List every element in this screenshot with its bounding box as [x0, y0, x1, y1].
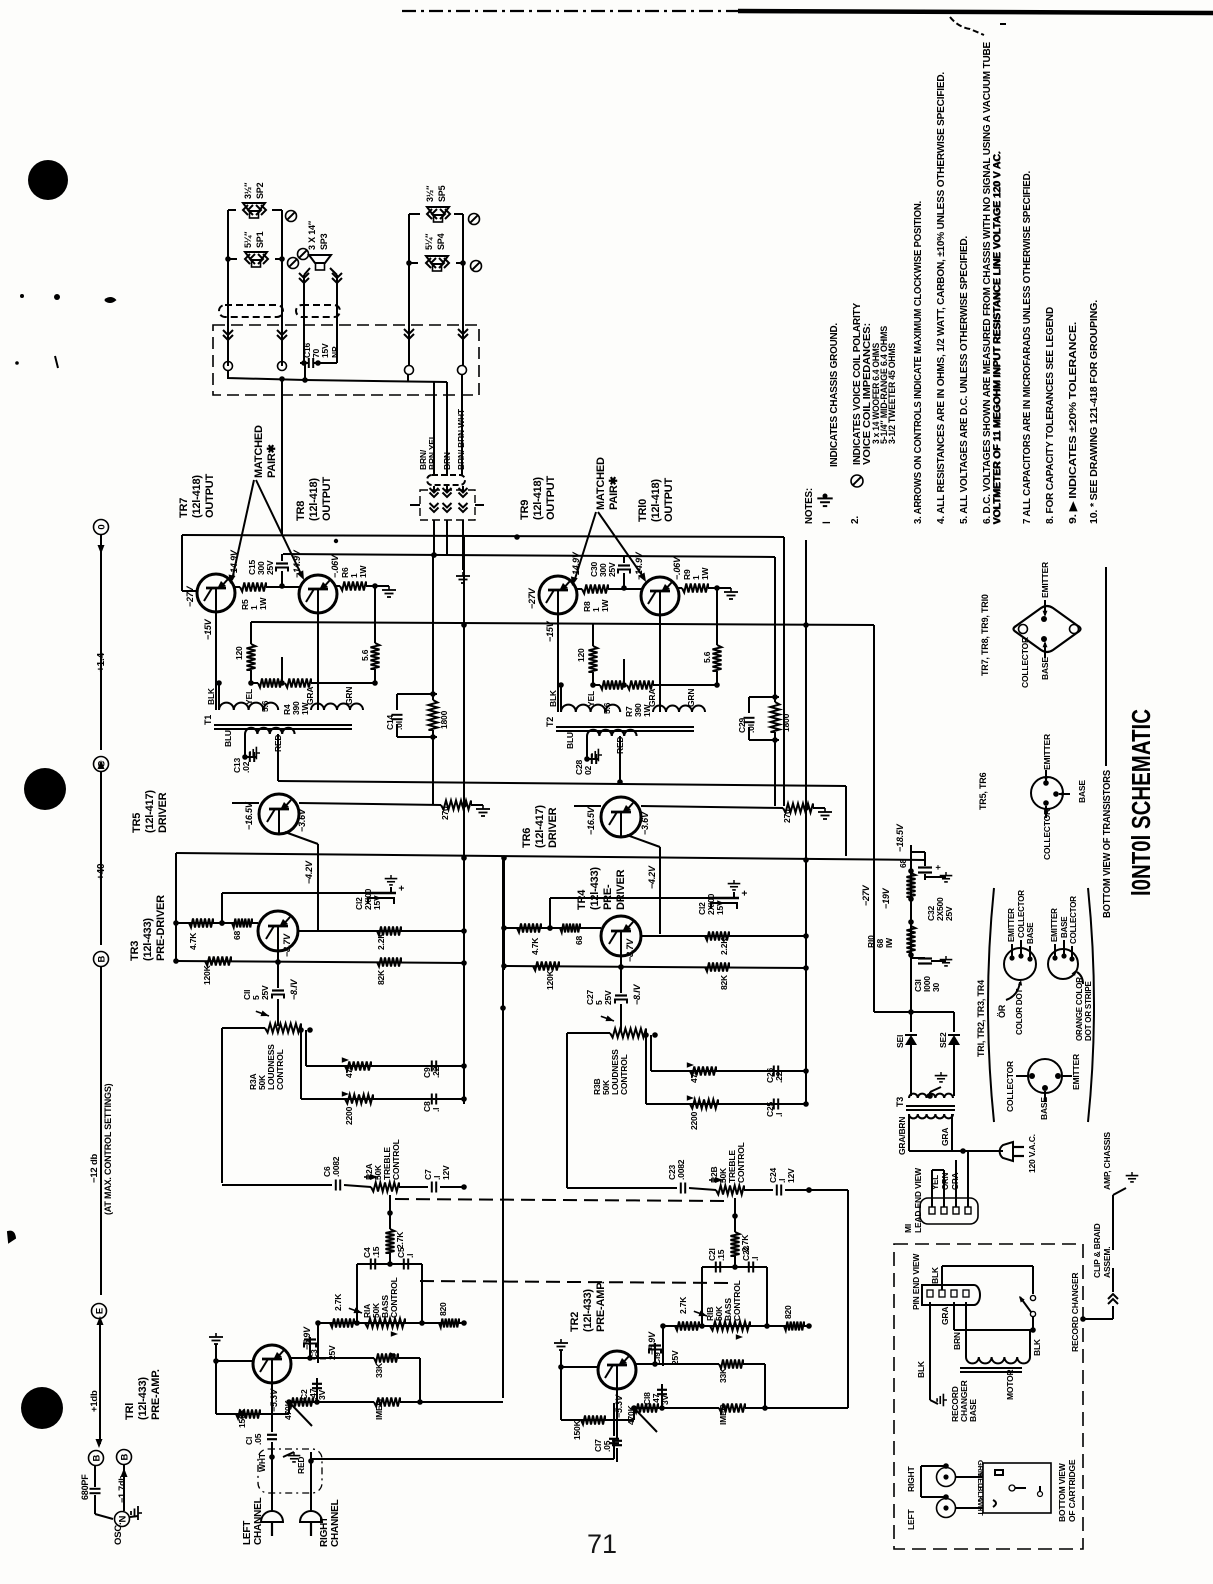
svg-text:GRA: GRA	[940, 1307, 950, 1325]
svg-text:Cl7.05: Cl7.05	[593, 1439, 612, 1452]
svg-text:YEL: YEL	[931, 1175, 940, 1190]
svg-text:GRA: GRA	[951, 1172, 960, 1190]
svg-text:EMITTER: EMITTER	[1071, 1054, 1081, 1090]
svg-text:COLLECTOR: COLLECTOR	[1069, 896, 1078, 944]
svg-text:T3: T3	[895, 1097, 905, 1107]
svg-text:−.06V: −.06V	[330, 554, 340, 578]
svg-text:68: 68	[574, 935, 584, 945]
svg-text:150K: 150K	[572, 1419, 582, 1440]
svg-text:9. ▶ INDICATES ±20% TOLERANCE: 9. ▶ INDICATES ±20% TOLERANCE.	[1067, 322, 1079, 524]
svg-text:120K: 120K	[545, 969, 555, 990]
svg-text:VOLTMETER OF 11 MEGOHM INPUT R: VOLTMETER OF 11 MEGOHM INPUT RESISTANCE …	[992, 151, 1004, 524]
svg-text:10. * SEE DRAWING 121-418 FOR: 10. * SEE DRAWING 121-418 FOR GROUPING.	[1088, 300, 1100, 524]
svg-text:BRN: BRN	[442, 452, 452, 470]
svg-text:470K: 470K	[283, 1399, 293, 1420]
svg-text:BASE: BASE	[1040, 657, 1050, 680]
svg-text:C2l.15: C2l.15	[707, 1248, 726, 1261]
svg-text:2.2K: 2.2K	[376, 932, 386, 950]
svg-text:3. ARROWS ON CONTROLS INDICAT: 3. ARROWS ON CONTROLS INDICATE MAXIMUM C…	[912, 201, 924, 524]
svg-text:1800: 1800	[439, 710, 449, 729]
svg-text:GRA: GRA	[940, 1128, 950, 1146]
svg-text:2.7K: 2.7K	[333, 1293, 343, 1311]
svg-text:120 V.A.C.: 120 V.A.C.	[1027, 1134, 1037, 1173]
svg-text:C4.15: C4.15	[362, 1246, 381, 1258]
svg-text:(AT MAX. CONTROL SETTINGS): (AT MAX. CONTROL SETTINGS)	[103, 1083, 113, 1215]
svg-text:82K: 82K	[719, 974, 729, 990]
svg-text:4.7K: 4.7K	[188, 932, 198, 950]
svg-text:2200: 2200	[689, 1111, 699, 1130]
svg-text:YEL: YEL	[244, 689, 254, 705]
svg-text:−4.2V: −4.2V	[304, 860, 314, 884]
svg-text:2.7K: 2.7K	[678, 1296, 688, 1314]
svg-text:SEl: SEl	[895, 1035, 905, 1048]
svg-text:GRN: GRN	[344, 687, 354, 705]
svg-text:+: +	[933, 865, 943, 870]
svg-text:270: 270	[440, 806, 450, 820]
svg-text:−5.3V: −5.3V	[614, 1394, 624, 1418]
svg-text:TR5, TR6: TR5, TR6	[978, 772, 988, 810]
svg-text:120: 120	[576, 648, 586, 662]
svg-text:BLU: BLU	[565, 732, 575, 749]
svg-text:B: B	[119, 1453, 130, 1460]
svg-text:lMEG: lMEG	[374, 1398, 384, 1420]
svg-text:71: 71	[587, 1529, 617, 1559]
svg-text:82K: 82K	[376, 969, 386, 985]
svg-text:SP1: SP1	[255, 231, 265, 248]
svg-text:−8.lV: −8.lV	[289, 979, 299, 1000]
svg-text:MOTOR: MOTOR	[1005, 1369, 1015, 1400]
svg-text:EMITTER: EMITTER	[1042, 734, 1052, 770]
svg-text:3 X 14″: 3 X 14″	[307, 220, 317, 250]
svg-text:RECORD CHANGER: RECORD CHANGER	[1070, 1273, 1080, 1352]
svg-text:l: l	[822, 521, 833, 524]
svg-text:−16.5V: −16.5V	[586, 806, 596, 835]
svg-text:NP: NP	[330, 346, 340, 358]
svg-text:BLK: BLK	[206, 687, 216, 705]
svg-text:RED: RED	[296, 1457, 306, 1474]
svg-text:PIN END VIEW: PIN END VIEW	[911, 1253, 921, 1310]
svg-text:BASE: BASE	[1039, 1097, 1049, 1120]
svg-text:WHT: WHT	[257, 1452, 267, 1472]
svg-text:SE2: SE2	[938, 1032, 948, 1048]
svg-text:TRl, TR2, TR3, TR4: TRl, TR2, TR3, TR4	[976, 980, 986, 1057]
svg-text:5.6: 5.6	[602, 702, 612, 714]
svg-text:−15V: −15V	[203, 618, 213, 640]
svg-text:2.: 2.	[850, 516, 861, 524]
svg-text:OSC.: OSC.	[113, 1523, 124, 1545]
svg-text:4. ALL RESISTANCES ARE IN OHM: 4. ALL RESISTANCES ARE IN OHMS, 1/2 WATT…	[935, 72, 947, 524]
svg-text:BASE: BASE	[1026, 922, 1035, 944]
svg-text:120: 120	[234, 646, 244, 660]
svg-text:EMITTER: EMITTER	[1007, 908, 1016, 942]
svg-text:BOTTOM VIEW OF TRANSISTORS: BOTTOM VIEW OF TRANSISTORS	[1102, 770, 1113, 918]
svg-text:RED: RED	[273, 735, 283, 752]
svg-text:−.06V: −.06V	[672, 556, 682, 580]
svg-text:−14.9V: −14.9V	[571, 551, 581, 580]
svg-text:3-1/2 TWEETER 45 OHMS: 3-1/2 TWEETER 45 OHMS	[887, 343, 898, 444]
svg-text:+: +	[740, 890, 751, 896]
svg-text:C9.22: C9.22	[422, 1066, 441, 1078]
svg-text:2200: 2200	[344, 1106, 354, 1125]
svg-text:COLLECTOR: COLLECTOR	[1005, 1061, 1015, 1112]
svg-text:5.6: 5.6	[360, 649, 370, 661]
svg-text:BLK: BLK	[916, 1360, 926, 1378]
svg-text:5.6: 5.6	[260, 700, 270, 712]
svg-text:−5.9V: −5.9V	[647, 1331, 657, 1355]
svg-text:−8.lV: −8.lV	[632, 984, 642, 1005]
svg-text:SP2: SP2	[255, 182, 265, 199]
svg-text:B: B	[96, 955, 107, 962]
svg-text:68: 68	[898, 858, 908, 868]
svg-text:COLOR DOT: COLOR DOT	[1015, 988, 1024, 1035]
svg-text:−18.5V: −18.5V	[895, 823, 905, 852]
svg-text:SP5: SP5	[437, 185, 447, 202]
svg-text:−14.9V: −14.9V	[634, 551, 644, 580]
svg-text:B: B	[91, 1454, 102, 1461]
svg-text:BOTTOM VIEWOF CARTRIDGE: BOTTOM VIEWOF CARTRIDGE	[1057, 1459, 1077, 1522]
svg-text:2.7K: 2.7K	[395, 1231, 405, 1249]
svg-text:3½″: 3½″	[243, 182, 253, 199]
svg-text:ORANGE COLORDOT OR STRIPE: ORANGE COLORDOT OR STRIPE	[1075, 977, 1093, 1041]
svg-text:33K: 33K	[718, 1367, 728, 1383]
svg-text:BLK: BLK	[930, 1266, 940, 1284]
svg-text:−16.5V: −16.5V	[244, 801, 254, 830]
svg-text:BLU: BLU	[223, 730, 233, 747]
svg-text:−12 db: −12 db	[89, 1153, 100, 1183]
svg-text:BRN: BRN	[952, 1332, 962, 1350]
svg-text:WHT: WHT	[976, 1499, 985, 1516]
svg-text:BLK: BLK	[1032, 1338, 1042, 1356]
svg-text:GRA: GRA	[647, 689, 657, 707]
svg-text:NOTES:: NOTES:	[803, 488, 815, 524]
svg-text:470K: 470K	[626, 1404, 636, 1425]
svg-text:68: 68	[232, 930, 242, 940]
svg-text:RIGHT: RIGHT	[906, 1466, 916, 1492]
svg-text:−3.6V: −3.6V	[640, 811, 650, 835]
svg-text:470: 470	[689, 1069, 699, 1083]
svg-text:5.6: 5.6	[702, 651, 712, 663]
svg-text:−27V: −27V	[527, 587, 537, 609]
svg-text:5¼″: 5¼″	[424, 233, 434, 250]
svg-text:−8.7V: −8.7V	[625, 938, 635, 962]
svg-text:270: 270	[782, 809, 792, 823]
svg-text:EMITTER: EMITTER	[1050, 908, 1059, 942]
svg-text:ÖR: ÖR	[997, 1004, 1007, 1018]
svg-text:−14.9V: −14.9V	[229, 549, 239, 578]
svg-text:−5.3V: −5.3V	[269, 1388, 279, 1412]
svg-text:TR7, TR8, TR9, TRl0: TR7, TR8, TR9, TRl0	[980, 594, 990, 676]
svg-text:7 ALL CAPACITORS ARE IN MICR: 7 ALL CAPACITORS ARE IN MICROFARADS UNLE…	[1021, 171, 1033, 524]
svg-text:3½″: 3½″	[425, 185, 435, 202]
svg-text:BASE: BASE	[1060, 916, 1069, 938]
svg-text:l0NT0l SCHEMATIC: l0NT0l SCHEMATIC	[1126, 709, 1156, 896]
svg-text:−1.7db: −1.7db	[117, 1475, 127, 1503]
svg-text:8. FOR CAPACITY TOLERANCES SE: 8. FOR CAPACITY TOLERANCES SEE LEGEND	[1044, 306, 1056, 524]
svg-text:YEL: YEL	[586, 691, 596, 707]
svg-text:AMP, CHASSIS: AMP, CHASSIS	[1102, 1132, 1112, 1190]
svg-text:1800: 1800	[781, 713, 791, 732]
svg-text:5. ALL VOLTAGES ARE D.C. UNLE: 5. ALL VOLTAGES ARE D.C. UNLESS OTHERWIS…	[958, 236, 970, 524]
svg-text:−3.6V: −3.6V	[297, 808, 307, 832]
svg-text:−8.7V: −8.7V	[282, 933, 292, 957]
svg-text:−5.9V: −5.9V	[302, 1326, 312, 1350]
svg-text:470: 470	[344, 1064, 354, 1078]
svg-text:T2: T2	[545, 717, 555, 727]
svg-text:150K: 150K	[237, 1407, 247, 1428]
svg-text:33K: 33K	[374, 1362, 384, 1378]
svg-text:BRN YEL: BRN YEL	[427, 434, 437, 470]
svg-text:−27V: −27V	[861, 884, 871, 906]
svg-text:−27V: −27V	[185, 585, 195, 607]
svg-text:−14.9V: −14.9V	[292, 549, 302, 578]
svg-text:T1: T1	[203, 715, 213, 725]
svg-text:RED: RED	[615, 737, 625, 754]
svg-text:+1.4: +1.4	[96, 652, 107, 672]
svg-text:+1db: +1db	[89, 1390, 100, 1412]
svg-text:680PF: 680PF	[80, 1474, 90, 1500]
svg-text:lMEG: lMEG	[718, 1403, 728, 1425]
svg-text:SP3: SP3	[319, 233, 329, 250]
svg-text:N: N	[117, 1515, 128, 1522]
svg-text:−15V: −15V	[545, 620, 555, 642]
svg-text:+: +	[397, 885, 408, 891]
svg-text:5¼″: 5¼″	[243, 231, 253, 248]
svg-text:4.7K: 4.7K	[530, 937, 540, 955]
svg-text:INDICATES CHASSIS GROUND.: INDICATES CHASSIS GROUND.	[828, 323, 840, 467]
svg-text:COLLECTOR: COLLECTOR	[1017, 890, 1026, 938]
svg-text:LEFT: LEFT	[906, 1509, 916, 1530]
svg-text:EMITTER: EMITTER	[1040, 562, 1050, 598]
svg-text:ORN: ORN	[941, 1172, 950, 1190]
svg-text:C1530025V: C1530025V	[247, 560, 275, 575]
svg-text:+40: +40	[96, 863, 107, 880]
svg-text:0: 0	[96, 524, 107, 529]
svg-text:GRA/BRN: GRA/BRN	[897, 1117, 907, 1155]
svg-text:C3030025V: C3030025V	[589, 562, 617, 577]
svg-text:2.2K: 2.2K	[719, 937, 729, 955]
svg-text:820: 820	[783, 1305, 793, 1319]
svg-text:BRN/ BRN WHT: BRN/ BRN WHT	[456, 408, 466, 470]
svg-text:SP4: SP4	[436, 233, 446, 250]
svg-text:120K: 120K	[202, 964, 212, 985]
svg-text:GRA: GRA	[305, 687, 315, 705]
svg-text:E: E	[94, 1308, 105, 1314]
svg-text:COLLECTOR: COLLECTOR	[1020, 637, 1030, 688]
svg-text:−4.2V: −4.2V	[647, 865, 657, 889]
svg-text:−19V: −19V	[881, 887, 891, 909]
svg-text:BASE: BASE	[1077, 780, 1087, 803]
svg-text:820: 820	[438, 1302, 448, 1316]
svg-text:BLK: BLK	[548, 689, 558, 707]
svg-text:C2.473V: C2.473V	[299, 1388, 327, 1400]
svg-text:COLLECTOR: COLLECTOR	[1042, 809, 1052, 860]
svg-text:GRN: GRN	[686, 689, 696, 707]
